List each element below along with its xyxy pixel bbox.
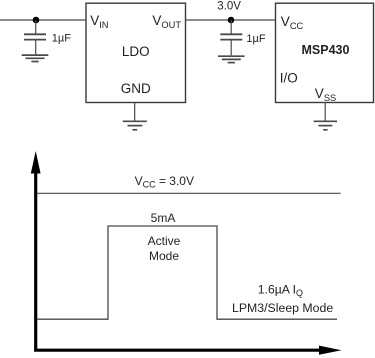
MSP430 block U2 [276, 3, 374, 102]
svg-text:VCC: VCC [281, 14, 304, 31]
ground (C1) [22, 55, 49, 61]
svg-text:VIN: VIN [90, 13, 108, 30]
waveform supply current (active pulse / sleep baseline) [37, 226, 337, 319]
node 3.0V/C2 junction [228, 17, 235, 24]
svg-text:1.6µA IQ: 1.6µA IQ [258, 283, 303, 299]
svg-text:Active: Active [148, 234, 181, 248]
svg-text:Mode: Mode [149, 249, 179, 263]
svg-text:I/O: I/O [280, 71, 298, 86]
svg-text:VOUT: VOUT [152, 13, 181, 30]
LDO block U1 [86, 3, 186, 102]
ground (MSP430 VSS pin) [314, 103, 337, 130]
x-axis (time) [34, 346, 341, 355]
svg-text:3.0V: 3.0V [217, 0, 241, 12]
svg-text:LPM3/Sleep Mode: LPM3/Sleep Mode [232, 301, 333, 315]
wire 3.0V net (LDO VOUT to MSP430 VCC) [186, 19, 276, 21]
wire input net (left supply rail) [0, 19, 86, 21]
svg-text:VCC = 3.0V: VCC = 3.0V [135, 174, 194, 190]
svg-text:1µF: 1µF [246, 33, 265, 45]
capacitor C1 [24, 20, 46, 54]
node input/C1 junction [33, 17, 40, 24]
svg-text:VSS: VSS [315, 86, 336, 103]
y-axis (supply current) [31, 151, 41, 351]
ground (C2) [218, 56, 245, 62]
svg-text:5mA: 5mA [151, 211, 176, 225]
svg-text:LDO: LDO [122, 44, 150, 59]
capacitor C2 [220, 20, 242, 55]
svg-text:1µF: 1µF [52, 33, 71, 45]
svg-text:GND: GND [121, 81, 151, 96]
ground (LDO GND pin) [123, 103, 147, 130]
line VCC supply level [37, 192, 341, 194]
svg-text:MSP430: MSP430 [302, 43, 350, 57]
